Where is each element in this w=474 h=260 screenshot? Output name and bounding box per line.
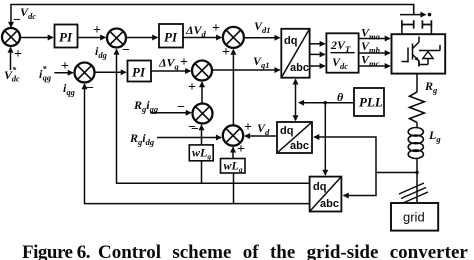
wire converter to Rg xyxy=(416,74,418,92)
wire dq2 to S7 xyxy=(245,135,277,137)
summing junction S3 xyxy=(223,27,244,48)
wire theta up to dq1 xyxy=(295,79,297,102)
wire Rg iqg to S6 xyxy=(150,112,191,114)
wire S1 to PI1 xyxy=(20,37,53,39)
summing junction S4 xyxy=(75,63,95,83)
svg-text:Vdc: Vdc xyxy=(332,55,348,71)
resistor Rg xyxy=(410,92,425,123)
svg-text:+: + xyxy=(237,142,245,157)
svg-text:+: + xyxy=(188,80,196,95)
svg-text:Vdc: Vdc xyxy=(20,5,36,21)
svg-text:Rgidg: Rgidg xyxy=(129,131,155,147)
svg-text:dq: dq xyxy=(284,35,297,47)
wire Vdc sense drop xyxy=(413,5,415,15)
block PLL xyxy=(354,88,384,116)
wire Rg to Lg xyxy=(416,123,418,129)
block dq2 xyxy=(277,122,312,153)
svg-text:−: − xyxy=(86,81,94,96)
svg-text:PI: PI xyxy=(132,65,146,80)
summing junction S6 xyxy=(193,104,213,124)
summing junction S1 xyxy=(2,28,20,46)
wire PI1 to S2 xyxy=(78,37,106,39)
wire dq1 out a xyxy=(310,43,325,45)
wire Vma xyxy=(359,38,390,40)
wire Vmb xyxy=(359,52,390,54)
block PI3 xyxy=(128,61,152,82)
svg-text:abc: abc xyxy=(290,62,309,74)
svg-text:ΔVq: ΔVq xyxy=(158,56,180,72)
wire cap stubs to converter xyxy=(402,29,432,35)
wire iqg feedback xyxy=(85,84,310,203)
block grid xyxy=(391,203,438,231)
svg-text:iqg: iqg xyxy=(63,81,76,97)
summing junction S2 xyxy=(107,29,126,48)
wire wLg1 input from idg line xyxy=(201,161,203,184)
svg-text:+: + xyxy=(14,47,22,62)
node tap junction xyxy=(415,171,418,174)
svg-text:ΔVd: ΔVd xyxy=(185,23,207,39)
block wLg2 xyxy=(221,159,246,175)
wire S5 to dq1 xyxy=(212,69,280,71)
block PI1 xyxy=(55,25,78,48)
svg-text:Vq1: Vq1 xyxy=(253,54,270,70)
node dc-link tap dot xyxy=(428,13,432,17)
wire S6 up to S5 xyxy=(201,82,203,103)
svg-text:Lg: Lg xyxy=(428,128,441,144)
svg-text:θ: θ xyxy=(337,90,344,104)
transistor Q1 IGBT xyxy=(402,37,420,67)
wire wLg1 up to S6 xyxy=(201,125,203,145)
svg-text:−: − xyxy=(122,43,130,58)
wire wLg2 input from iqg line xyxy=(233,173,235,204)
svg-text:PI: PI xyxy=(59,30,73,45)
capacitor C2 plates xyxy=(422,20,431,28)
svg-text:2VT: 2VT xyxy=(330,38,351,54)
block wLg1 xyxy=(189,145,213,161)
svg-text:i*qg: i*qg xyxy=(39,64,52,83)
diode D1 xyxy=(419,45,440,67)
svg-text:Rg: Rg xyxy=(424,79,438,95)
summing junction S5 xyxy=(192,61,212,81)
wire current measurement to dq3 xyxy=(344,173,376,196)
wire Vdc* input xyxy=(10,48,12,71)
block 2VT/Vdc xyxy=(326,33,358,72)
wire dq1 out b xyxy=(310,53,325,55)
wire dq1 out c xyxy=(310,65,325,67)
svg-text:V*dc: V*dc xyxy=(4,65,20,84)
block PI2 xyxy=(159,24,183,48)
wire S2 to PI2 xyxy=(126,37,157,39)
wire theta branch to dq3 xyxy=(324,103,326,175)
svg-text:dq: dq xyxy=(280,125,293,137)
wire S4 to PI3 xyxy=(95,71,126,73)
svg-text:+: + xyxy=(180,55,188,70)
svg-text:wLg: wLg xyxy=(192,146,211,162)
wire measurement tap xyxy=(376,172,417,174)
node theta junction xyxy=(324,101,327,104)
wire theta down to dq2 xyxy=(295,103,297,121)
wire voltage measurement to dq2 xyxy=(314,137,376,173)
svg-text:Rgiqg: Rgiqg xyxy=(133,98,159,114)
wire PLL theta out xyxy=(299,102,354,104)
svg-text:+: + xyxy=(222,45,230,60)
wire Vmc xyxy=(359,65,390,67)
svg-text:−: − xyxy=(191,122,199,137)
svg-text:+: + xyxy=(244,120,252,135)
wire iqg* input xyxy=(54,72,72,74)
svg-text:wLg: wLg xyxy=(224,159,243,175)
capacitor C1 plates xyxy=(402,20,414,28)
svg-text:Vd1: Vd1 xyxy=(254,19,271,35)
block dq1 xyxy=(281,29,309,78)
svg-text:idg: idg xyxy=(95,44,108,60)
wire Lg to grid xyxy=(416,158,418,203)
svg-text:abc: abc xyxy=(320,198,339,210)
three-phase slashes xyxy=(399,183,428,203)
block dq3 xyxy=(310,177,342,212)
wire PI3 to S5 xyxy=(151,70,190,72)
svg-text:+: + xyxy=(93,23,101,38)
caption xyxy=(22,243,90,260)
svg-text:PLL: PLL xyxy=(359,95,383,110)
svg-text:+: + xyxy=(61,59,69,74)
inductor Lg xyxy=(408,128,423,159)
wire idg feedback xyxy=(117,50,310,184)
svg-text:grid: grid xyxy=(403,210,425,225)
wire Rg idg to S7 xyxy=(157,137,221,139)
wire S7 up to S3 xyxy=(232,50,234,126)
svg-text:PI: PI xyxy=(164,30,178,45)
wire PI2 to S3 xyxy=(183,37,221,39)
wire wLg2 up to S7 xyxy=(232,147,234,158)
svg-text:−: − xyxy=(13,13,21,28)
svg-text:abc: abc xyxy=(290,140,309,152)
svg-text:dq: dq xyxy=(313,181,326,193)
wire dc-link sense segment xyxy=(400,14,426,16)
svg-text:+: + xyxy=(212,21,220,36)
wire Vdc feedback top xyxy=(11,5,414,28)
svg-text:Vd: Vd xyxy=(257,121,270,137)
wire S3 to dq1 xyxy=(244,37,280,39)
summing junction S7 xyxy=(223,125,243,145)
converter U1 box xyxy=(392,34,446,73)
